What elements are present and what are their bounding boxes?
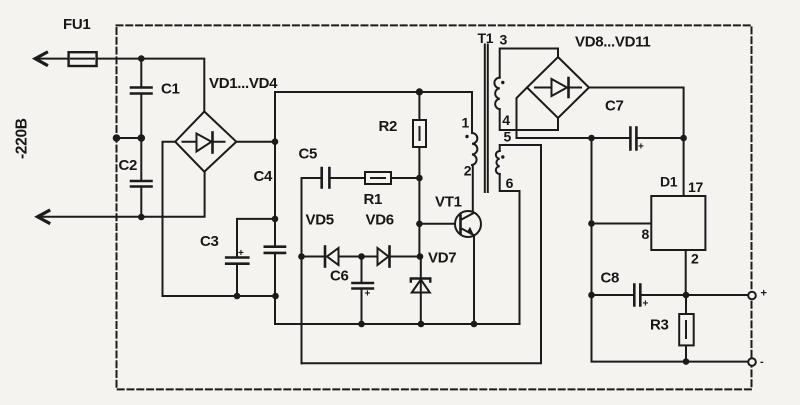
svg-text:D1: D1 (660, 174, 678, 190)
svg-text:C5: C5 (299, 146, 318, 163)
svg-text:C6: C6 (330, 268, 349, 285)
svg-text:+: + (238, 248, 244, 259)
svg-text:17: 17 (688, 179, 703, 195)
svg-text:R1: R1 (364, 191, 383, 208)
svg-text:R3: R3 (650, 317, 669, 334)
svg-text:C4: C4 (254, 168, 274, 185)
svg-text:VD6: VD6 (366, 212, 394, 229)
svg-text:VD7: VD7 (428, 250, 456, 267)
svg-text:4: 4 (502, 112, 510, 128)
svg-text:C1: C1 (161, 81, 180, 98)
svg-text:1: 1 (462, 115, 470, 131)
svg-text:5: 5 (504, 129, 512, 145)
svg-text:6: 6 (506, 175, 514, 191)
svg-text:R2: R2 (379, 118, 398, 135)
svg-text:C3: C3 (200, 233, 219, 250)
svg-text:+: + (638, 142, 644, 153)
svg-text:VD5: VD5 (306, 212, 334, 229)
svg-text:T1: T1 (478, 30, 494, 46)
svg-text:2: 2 (464, 163, 472, 179)
svg-text:8: 8 (642, 226, 650, 242)
svg-text:-220В: -220В (14, 118, 31, 159)
svg-text:VD8...VD11: VD8...VD11 (575, 34, 650, 51)
svg-text:C8: C8 (601, 270, 620, 287)
svg-text:C2: C2 (119, 157, 138, 174)
svg-text:+: + (643, 299, 649, 310)
svg-text:FU1: FU1 (63, 16, 90, 33)
svg-text:+: + (365, 289, 371, 300)
svg-text:2: 2 (691, 251, 699, 267)
svg-text:VT1: VT1 (435, 194, 462, 211)
svg-text:C7: C7 (605, 98, 624, 115)
svg-text:3: 3 (500, 32, 508, 48)
svg-text:+: + (761, 288, 767, 300)
svg-text:VD1...VD4: VD1...VD4 (209, 75, 278, 92)
